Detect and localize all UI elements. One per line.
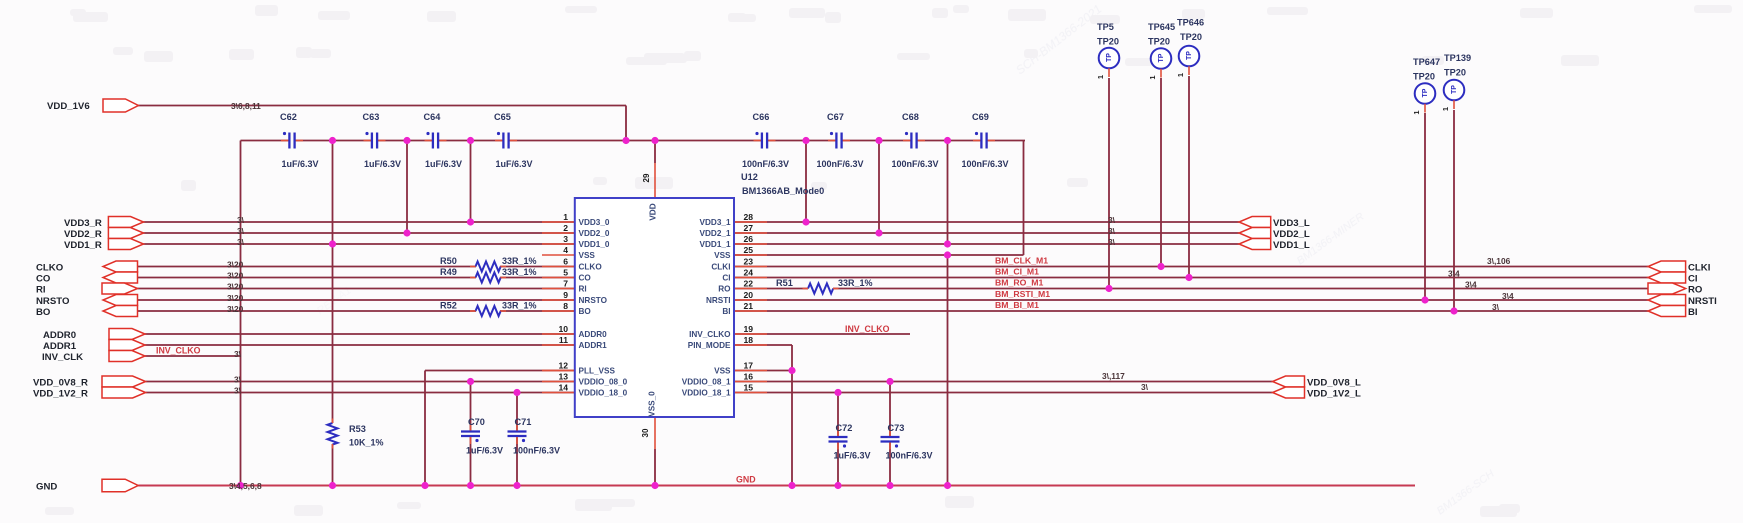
port VDD2_L xyxy=(1239,228,1271,239)
svg-text:NRSTO: NRSTO xyxy=(579,296,608,305)
wire VDD3_1 row xyxy=(734,221,1239,223)
svg-text:14: 14 xyxy=(558,382,568,392)
port GND xyxy=(102,479,138,492)
wire C70 column xyxy=(470,382,472,432)
svg-text:VDD_1V2_L: VDD_1V2_L xyxy=(1307,388,1361,399)
svg-text:C62: C62 xyxy=(280,112,297,122)
svg-text:TP20: TP20 xyxy=(1444,68,1466,78)
port NRSTO xyxy=(103,295,138,306)
svg-text:3\: 3\ xyxy=(1141,382,1149,392)
wire PIN_MODE to GND xyxy=(734,344,792,346)
svg-text:28: 28 xyxy=(744,212,754,222)
svg-text:VDD1_L: VDD1_L xyxy=(1273,240,1310,251)
svg-text:3\20: 3\20 xyxy=(227,271,244,281)
svg-text:3\6,8,11: 3\6,8,11 xyxy=(231,101,261,111)
port VDD_1V6 xyxy=(103,99,138,112)
capacitor C70 xyxy=(461,430,480,432)
wire VDD2 drop x=407 xyxy=(406,141,408,234)
wire GND rail xyxy=(138,485,1415,487)
port VDD_0V8_L xyxy=(1273,376,1305,387)
wire C71 column xyxy=(516,393,518,432)
svg-text:CLKI: CLKI xyxy=(1688,262,1711,273)
svg-text:BI: BI xyxy=(1688,307,1698,318)
wire RI row xyxy=(138,288,575,290)
svg-text:20: 20 xyxy=(744,290,754,300)
svg-text:ADDR0: ADDR0 xyxy=(43,330,76,341)
svg-text:U12: U12 xyxy=(741,172,758,182)
svg-text:3\4: 3\4 xyxy=(1502,291,1514,301)
svg-text:3\: 3\ xyxy=(237,215,245,225)
port VDD2_R xyxy=(108,228,143,239)
svg-text:3\: 3\ xyxy=(1108,226,1116,236)
decorative watermark xyxy=(315,2,1497,518)
svg-text:VDD3_L: VDD3_L xyxy=(1273,218,1310,229)
capacitor C67 xyxy=(835,133,837,149)
svg-text:26: 26 xyxy=(744,234,754,244)
svg-text:BO: BO xyxy=(36,307,51,318)
svg-text:BM_RSTI_M1: BM_RSTI_M1 xyxy=(995,289,1050,299)
capacitor C66 xyxy=(761,133,763,149)
svg-text:VDD_1V6: VDD_1V6 xyxy=(47,101,90,112)
svg-text:VDDIO_18_1: VDDIO_18_1 xyxy=(682,389,731,398)
svg-text:2: 2 xyxy=(563,223,568,233)
svg-text:INV_CLKO: INV_CLKO xyxy=(689,330,731,339)
svg-text:RO: RO xyxy=(718,285,731,294)
wire TP5 drop xyxy=(1108,78,1110,289)
svg-text:TP: TP xyxy=(1158,53,1165,62)
svg-text:R49: R49 xyxy=(440,267,457,277)
svg-text:PLL_VSS: PLL_VSS xyxy=(579,367,616,376)
svg-text:18: 18 xyxy=(744,335,754,345)
svg-text:BM_CI_M1: BM_CI_M1 xyxy=(995,267,1039,277)
svg-text:NRSTI: NRSTI xyxy=(1688,296,1717,307)
resistor R51 xyxy=(808,284,833,294)
svg-text:GND: GND xyxy=(736,475,756,485)
testpoint TP645 xyxy=(1151,48,1172,69)
wire VDD2_1 row xyxy=(734,232,1239,234)
svg-text:INV_CLK: INV_CLK xyxy=(42,352,83,363)
port INV_CLK xyxy=(109,351,145,362)
wire RO row xyxy=(734,288,808,290)
wire VDD3_R row xyxy=(144,221,575,223)
svg-text:C71: C71 xyxy=(515,417,532,427)
svg-text:CLKO: CLKO xyxy=(579,263,603,272)
svg-text:3\4,5,6,8: 3\4,5,6,8 xyxy=(229,481,262,491)
svg-text:TP5: TP5 xyxy=(1097,22,1114,32)
wire VSS pin17 xyxy=(734,370,792,372)
pin 29 stub xyxy=(654,163,656,198)
svg-text:VDD2_1: VDD2_1 xyxy=(700,229,731,238)
capacitor C64 xyxy=(432,133,434,149)
resistor R53 xyxy=(328,423,338,445)
port CLKI xyxy=(1648,261,1686,272)
svg-text:1: 1 xyxy=(1096,75,1105,79)
svg-text:29: 29 xyxy=(642,173,651,182)
svg-text:PIN_MODE: PIN_MODE xyxy=(688,341,731,350)
svg-text:7: 7 xyxy=(563,278,568,288)
svg-text:TP20: TP20 xyxy=(1097,37,1119,47)
svg-text:1: 1 xyxy=(1441,107,1450,111)
svg-text:1uF/6.3V: 1uF/6.3V xyxy=(425,159,462,169)
svg-text:3\: 3\ xyxy=(234,349,242,359)
testpoint TP139 xyxy=(1444,80,1465,101)
wire NRSTO row xyxy=(138,299,575,301)
svg-text:24: 24 xyxy=(744,267,754,277)
svg-text:CI: CI xyxy=(722,274,730,283)
svg-text:27: 27 xyxy=(744,223,754,233)
svg-text:VDD_0V8_R: VDD_0V8_R xyxy=(33,377,88,388)
svg-text:VDD_0V8_L: VDD_0V8_L xyxy=(1307,377,1361,388)
svg-text:VDD1_R: VDD1_R xyxy=(64,240,102,251)
svg-text:BM1366AB_Mode0: BM1366AB_Mode0 xyxy=(742,186,824,196)
wire CO row xyxy=(138,277,477,279)
wire VSS_0 pin30 to GND xyxy=(654,449,656,486)
svg-text:BM_BI_M1: BM_BI_M1 xyxy=(995,300,1039,310)
svg-text:R52: R52 xyxy=(440,301,457,311)
svg-text:TP20: TP20 xyxy=(1413,72,1435,82)
svg-text:3\: 3\ xyxy=(237,237,245,247)
svg-text:33R_1%: 33R_1% xyxy=(838,278,873,288)
svg-text:100nF/6.3V: 100nF/6.3V xyxy=(742,159,789,169)
wire C68 drop x=947.5 xyxy=(947,141,949,245)
svg-text:22: 22 xyxy=(744,278,754,288)
svg-text:C67: C67 xyxy=(827,112,844,122)
svg-text:TP20: TP20 xyxy=(1148,37,1170,47)
svg-text:1uF/6.3V: 1uF/6.3V xyxy=(495,159,532,169)
capacitor C65 xyxy=(502,133,504,149)
wire PLL_VSS drop to GND xyxy=(424,371,426,486)
svg-text:3\: 3\ xyxy=(1108,215,1116,225)
svg-text:16: 16 xyxy=(744,371,754,381)
wire PLL_VSS row xyxy=(425,370,575,372)
svg-text:3\,106: 3\,106 xyxy=(1487,256,1511,266)
IC U12 BM1366AB body xyxy=(575,198,734,417)
svg-text:VDDIO_18_0: VDDIO_18_0 xyxy=(579,389,628,398)
svg-text:3\: 3\ xyxy=(234,386,242,396)
svg-text:3\20: 3\20 xyxy=(227,282,244,292)
svg-text:10: 10 xyxy=(558,324,568,334)
capacitor C69 xyxy=(980,133,982,149)
svg-text:RI: RI xyxy=(579,285,587,294)
svg-text:VDDIO_08_1: VDDIO_08_1 xyxy=(682,378,731,387)
svg-text:1: 1 xyxy=(563,212,568,222)
svg-text:3\20: 3\20 xyxy=(227,260,244,270)
pin 30 stub xyxy=(654,417,656,449)
capacitor C73 xyxy=(881,436,900,438)
port ADDR1 xyxy=(109,340,145,351)
svg-text:NRSTI: NRSTI xyxy=(706,296,731,305)
port BI xyxy=(1648,306,1686,317)
svg-text:VDD3_1: VDD3_1 xyxy=(700,218,731,227)
port VDD_1V2_L xyxy=(1273,387,1305,398)
wire INV_CLK stub xyxy=(145,355,241,357)
port CO xyxy=(103,272,138,283)
wire TP647 drop xyxy=(1424,113,1426,300)
wire VDD pin29 drop xyxy=(654,141,656,164)
wire NRSTI row xyxy=(734,299,1648,301)
svg-text:21: 21 xyxy=(744,301,754,311)
svg-text:30: 30 xyxy=(641,428,650,437)
svg-text:VDD2_R: VDD2_R xyxy=(64,229,102,240)
svg-text:BM_RO_M1: BM_RO_M1 xyxy=(995,278,1043,288)
svg-text:4: 4 xyxy=(563,245,568,255)
wire VDD_0V8_R row xyxy=(146,381,575,383)
svg-text:C64: C64 xyxy=(424,112,442,122)
wire VDD3 drop x=470.5 xyxy=(470,141,472,223)
svg-text:17: 17 xyxy=(744,360,754,370)
wire VSS row to C69 xyxy=(734,254,1024,256)
svg-text:3\20: 3\20 xyxy=(227,304,244,314)
svg-text:VDDIO_08_0: VDDIO_08_0 xyxy=(579,378,628,387)
port VDD_0V8_R xyxy=(102,376,146,387)
svg-text:6: 6 xyxy=(563,256,568,266)
svg-text:VDD3_R: VDD3_R xyxy=(64,218,102,229)
wire VDD1 column x=332.5 (through R53) xyxy=(332,141,334,424)
svg-text:3\4: 3\4 xyxy=(1448,269,1460,279)
wire VDD2_R row xyxy=(144,232,575,234)
svg-text:TP: TP xyxy=(1422,88,1429,97)
svg-text:100nF/6.3V: 100nF/6.3V xyxy=(816,159,863,169)
svg-text:R50: R50 xyxy=(440,256,457,266)
svg-text:C63: C63 xyxy=(363,112,380,122)
port NRSTI xyxy=(1648,295,1686,306)
port ADDR0 xyxy=(109,329,145,340)
svg-text:C70: C70 xyxy=(468,417,485,427)
wire TP139 drop xyxy=(1453,110,1455,311)
svg-text:CO: CO xyxy=(36,273,51,284)
svg-text:VSS_0: VSS_0 xyxy=(648,391,657,417)
chip right pin stubs xyxy=(734,221,767,223)
wire VDD1_R row xyxy=(144,243,575,245)
svg-text:3\: 3\ xyxy=(237,226,245,236)
svg-text:1: 1 xyxy=(1148,75,1157,79)
wire decoupling cap row xyxy=(241,140,289,142)
svg-text:INV_CLKO: INV_CLKO xyxy=(156,346,201,356)
wire VDDIO_18_1 row xyxy=(734,392,1273,394)
port BO xyxy=(103,306,138,317)
wire CLKO row xyxy=(138,266,477,268)
wire VDD_1V6 drop to cap row xyxy=(625,106,627,141)
svg-text:11: 11 xyxy=(559,335,568,345)
svg-text:INV_CLKO: INV_CLKO xyxy=(845,324,890,334)
wire INV_CLKO net xyxy=(734,333,910,335)
svg-text:VDD2_L: VDD2_L xyxy=(1273,229,1310,240)
svg-text:C66: C66 xyxy=(753,112,770,122)
svg-text:CLKO: CLKO xyxy=(36,262,64,273)
svg-text:VSS: VSS xyxy=(714,367,731,376)
svg-text:CO: CO xyxy=(579,274,592,283)
svg-text:BM_CLK_M1: BM_CLK_M1 xyxy=(995,256,1048,266)
svg-text:VDD: VDD xyxy=(649,203,658,220)
wire ADDR0 row xyxy=(145,333,575,335)
resistor R50 xyxy=(476,262,501,272)
svg-text:TP20: TP20 xyxy=(1180,32,1202,42)
svg-text:GND: GND xyxy=(36,481,57,492)
capacitor C63 xyxy=(371,133,373,149)
capacitor C72 xyxy=(829,436,848,438)
svg-text:TP: TP xyxy=(1451,85,1458,94)
svg-text:100nF/6.3V: 100nF/6.3V xyxy=(961,159,1008,169)
svg-text:NRSTO: NRSTO xyxy=(36,296,70,307)
wire VDD_1V6 horizontal xyxy=(138,105,626,107)
svg-text:VDD1_1: VDD1_1 xyxy=(700,240,731,249)
svg-text:R53: R53 xyxy=(349,424,366,434)
svg-text:CI: CI xyxy=(1688,273,1698,284)
svg-text:3: 3 xyxy=(563,234,568,244)
wire ADDR1 row xyxy=(145,344,575,346)
wire VDD_1V2_R row xyxy=(146,392,575,394)
svg-text:C68: C68 xyxy=(902,112,919,122)
svg-text:VDD3_0: VDD3_0 xyxy=(579,218,610,227)
capacitor C62 xyxy=(288,133,290,149)
svg-text:ADDR1: ADDR1 xyxy=(43,341,77,352)
capacitor C68 xyxy=(910,133,912,149)
port CLKO xyxy=(103,261,138,272)
svg-text:100nF/6.3V: 100nF/6.3V xyxy=(886,451,933,461)
port VDD1_R xyxy=(108,239,143,250)
wire BO row xyxy=(138,310,477,312)
svg-text:R51: R51 xyxy=(776,278,793,288)
svg-text:23: 23 xyxy=(744,256,754,266)
svg-text:9: 9 xyxy=(563,290,568,300)
svg-text:3\: 3\ xyxy=(1108,237,1116,247)
svg-text:100nF/6.3V: 100nF/6.3V xyxy=(513,446,560,456)
svg-text:RI: RI xyxy=(36,284,46,295)
svg-text:CLKI: CLKI xyxy=(711,263,730,272)
svg-text:C72: C72 xyxy=(836,423,853,433)
junction dots xyxy=(329,137,336,144)
svg-text:BO: BO xyxy=(579,307,592,316)
wire C73 column xyxy=(889,382,891,438)
svg-text:12: 12 xyxy=(558,360,568,370)
svg-text:1: 1 xyxy=(1412,110,1421,114)
svg-text:3\4: 3\4 xyxy=(1465,280,1477,290)
svg-text:25: 25 xyxy=(744,245,754,255)
capacitor C71 xyxy=(508,430,527,432)
svg-text:3\20: 3\20 xyxy=(227,293,244,303)
wire VSS riser to GND x=947.5 xyxy=(947,255,949,486)
svg-text:33R_1%: 33R_1% xyxy=(502,301,537,311)
wire CLKI row xyxy=(734,266,1648,268)
wire VDD1_1 row xyxy=(734,243,1239,245)
port VDD3_R xyxy=(108,217,143,228)
svg-text:TP646: TP646 xyxy=(1177,18,1204,28)
svg-text:1: 1 xyxy=(1176,73,1185,77)
wire C72 column xyxy=(837,393,839,438)
svg-text:100nF/6.3V: 100nF/6.3V xyxy=(891,159,938,169)
resistor R49 xyxy=(476,273,501,283)
port CI xyxy=(1648,272,1686,283)
svg-text:ADDR0: ADDR0 xyxy=(579,330,608,339)
wire VDDIO_08_1 row xyxy=(734,381,1273,383)
wire C67 drop x=879 xyxy=(878,141,880,234)
svg-text:3\: 3\ xyxy=(1492,302,1500,312)
svg-text:VSS: VSS xyxy=(714,251,731,260)
wire CI row xyxy=(734,277,1648,279)
wire TP645 drop xyxy=(1160,78,1162,267)
svg-text:VSS: VSS xyxy=(579,251,596,260)
svg-text:VDD2_0: VDD2_0 xyxy=(579,229,610,238)
svg-text:TP647: TP647 xyxy=(1413,57,1440,67)
svg-text:1uF/6.3V: 1uF/6.3V xyxy=(466,446,503,456)
svg-text:C73: C73 xyxy=(888,423,905,433)
svg-text:33R_1%: 33R_1% xyxy=(502,267,537,277)
svg-text:TP: TP xyxy=(1106,53,1113,62)
pin 12 stub PLL_VSS xyxy=(542,370,575,372)
svg-text:VDD1_0: VDD1_0 xyxy=(579,240,610,249)
svg-text:1uF/6.3V: 1uF/6.3V xyxy=(281,159,318,169)
svg-text:TP645: TP645 xyxy=(1148,22,1175,32)
svg-text:TP139: TP139 xyxy=(1444,53,1471,63)
testpoint TP647 xyxy=(1415,83,1436,104)
testpoint TP646 xyxy=(1179,46,1200,67)
svg-text:15: 15 xyxy=(744,382,754,392)
port VDD_1V2_R xyxy=(102,387,146,398)
wire C66 drop x=806 xyxy=(805,141,807,223)
svg-text:TP: TP xyxy=(1186,51,1193,60)
svg-text:C65: C65 xyxy=(494,112,511,122)
svg-text:3\,117: 3\,117 xyxy=(1102,371,1125,381)
svg-text:10K_1%: 10K_1% xyxy=(349,438,384,448)
port RO xyxy=(1648,283,1686,294)
svg-text:RO: RO xyxy=(1688,284,1703,295)
svg-text:8: 8 xyxy=(563,301,568,311)
svg-text:13: 13 xyxy=(558,371,568,381)
svg-text:1uF/6.3V: 1uF/6.3V xyxy=(834,451,871,461)
resistor R52 xyxy=(476,306,501,316)
svg-text:33R_1%: 33R_1% xyxy=(502,256,537,266)
wire TP646 drop xyxy=(1188,76,1190,278)
port VDD1_L xyxy=(1239,239,1271,250)
wire GND left riser x=240.5 xyxy=(240,141,242,486)
port RI xyxy=(102,283,138,294)
testpoint TP5 xyxy=(1099,48,1120,69)
port VDD3_L xyxy=(1239,217,1271,228)
svg-text:VDD_1V2_R: VDD_1V2_R xyxy=(33,388,88,399)
svg-text:1uF/6.3V: 1uF/6.3V xyxy=(364,159,401,169)
svg-text:C69: C69 xyxy=(972,112,989,122)
svg-text:BI: BI xyxy=(722,307,730,316)
svg-text:5: 5 xyxy=(563,267,568,277)
chip left pin stubs xyxy=(542,221,575,223)
svg-text:3\: 3\ xyxy=(234,375,242,385)
wire BI row xyxy=(734,310,1648,312)
svg-text:19: 19 xyxy=(744,324,754,334)
svg-text:ADDR1: ADDR1 xyxy=(579,341,608,350)
